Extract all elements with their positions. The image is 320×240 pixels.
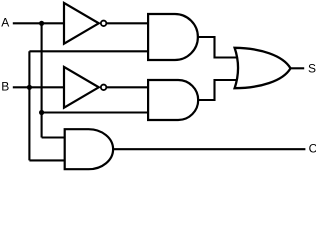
node B junction dot: [27, 85, 32, 90]
svg-text:C: C: [309, 142, 316, 156]
wire A lead: [13, 22, 66, 24]
node A branch junction dot: [39, 110, 44, 115]
or-gate U5: [235, 48, 291, 88]
svg-text:B: B: [1, 80, 9, 94]
wire A to AND3 upper input: [42, 136, 66, 138]
wire A vertical branch: [41, 23, 43, 137]
wire U1 output to AND1: [107, 22, 150, 24]
inverter U1 bubble: [101, 21, 107, 27]
wire B vertical branch: [28, 51, 30, 160]
and-gate U3 top: [148, 14, 198, 60]
inverter U2 triangle: [64, 67, 99, 108]
wire A to AND2 lower input: [42, 111, 150, 113]
wire B to AND3 lower input: [29, 159, 66, 161]
wire S output: [290, 67, 305, 69]
node A junction dot: [39, 21, 44, 26]
inverter U1 triangle: [64, 3, 99, 44]
inverter U2 bubble: [101, 85, 107, 91]
wire B lead: [13, 86, 66, 88]
and-gate U4 middle: [148, 80, 198, 120]
wire U2 output to AND2: [107, 86, 150, 88]
and-gate U6 bottom: [65, 129, 113, 169]
wire C output: [112, 148, 305, 150]
svg-text:S: S: [308, 62, 316, 76]
wire AND2 output to OR: [197, 80, 237, 100]
wire B to AND1 lower input: [29, 50, 150, 52]
svg-text:A: A: [1, 15, 9, 29]
wire AND1 output to OR: [197, 37, 237, 58]
